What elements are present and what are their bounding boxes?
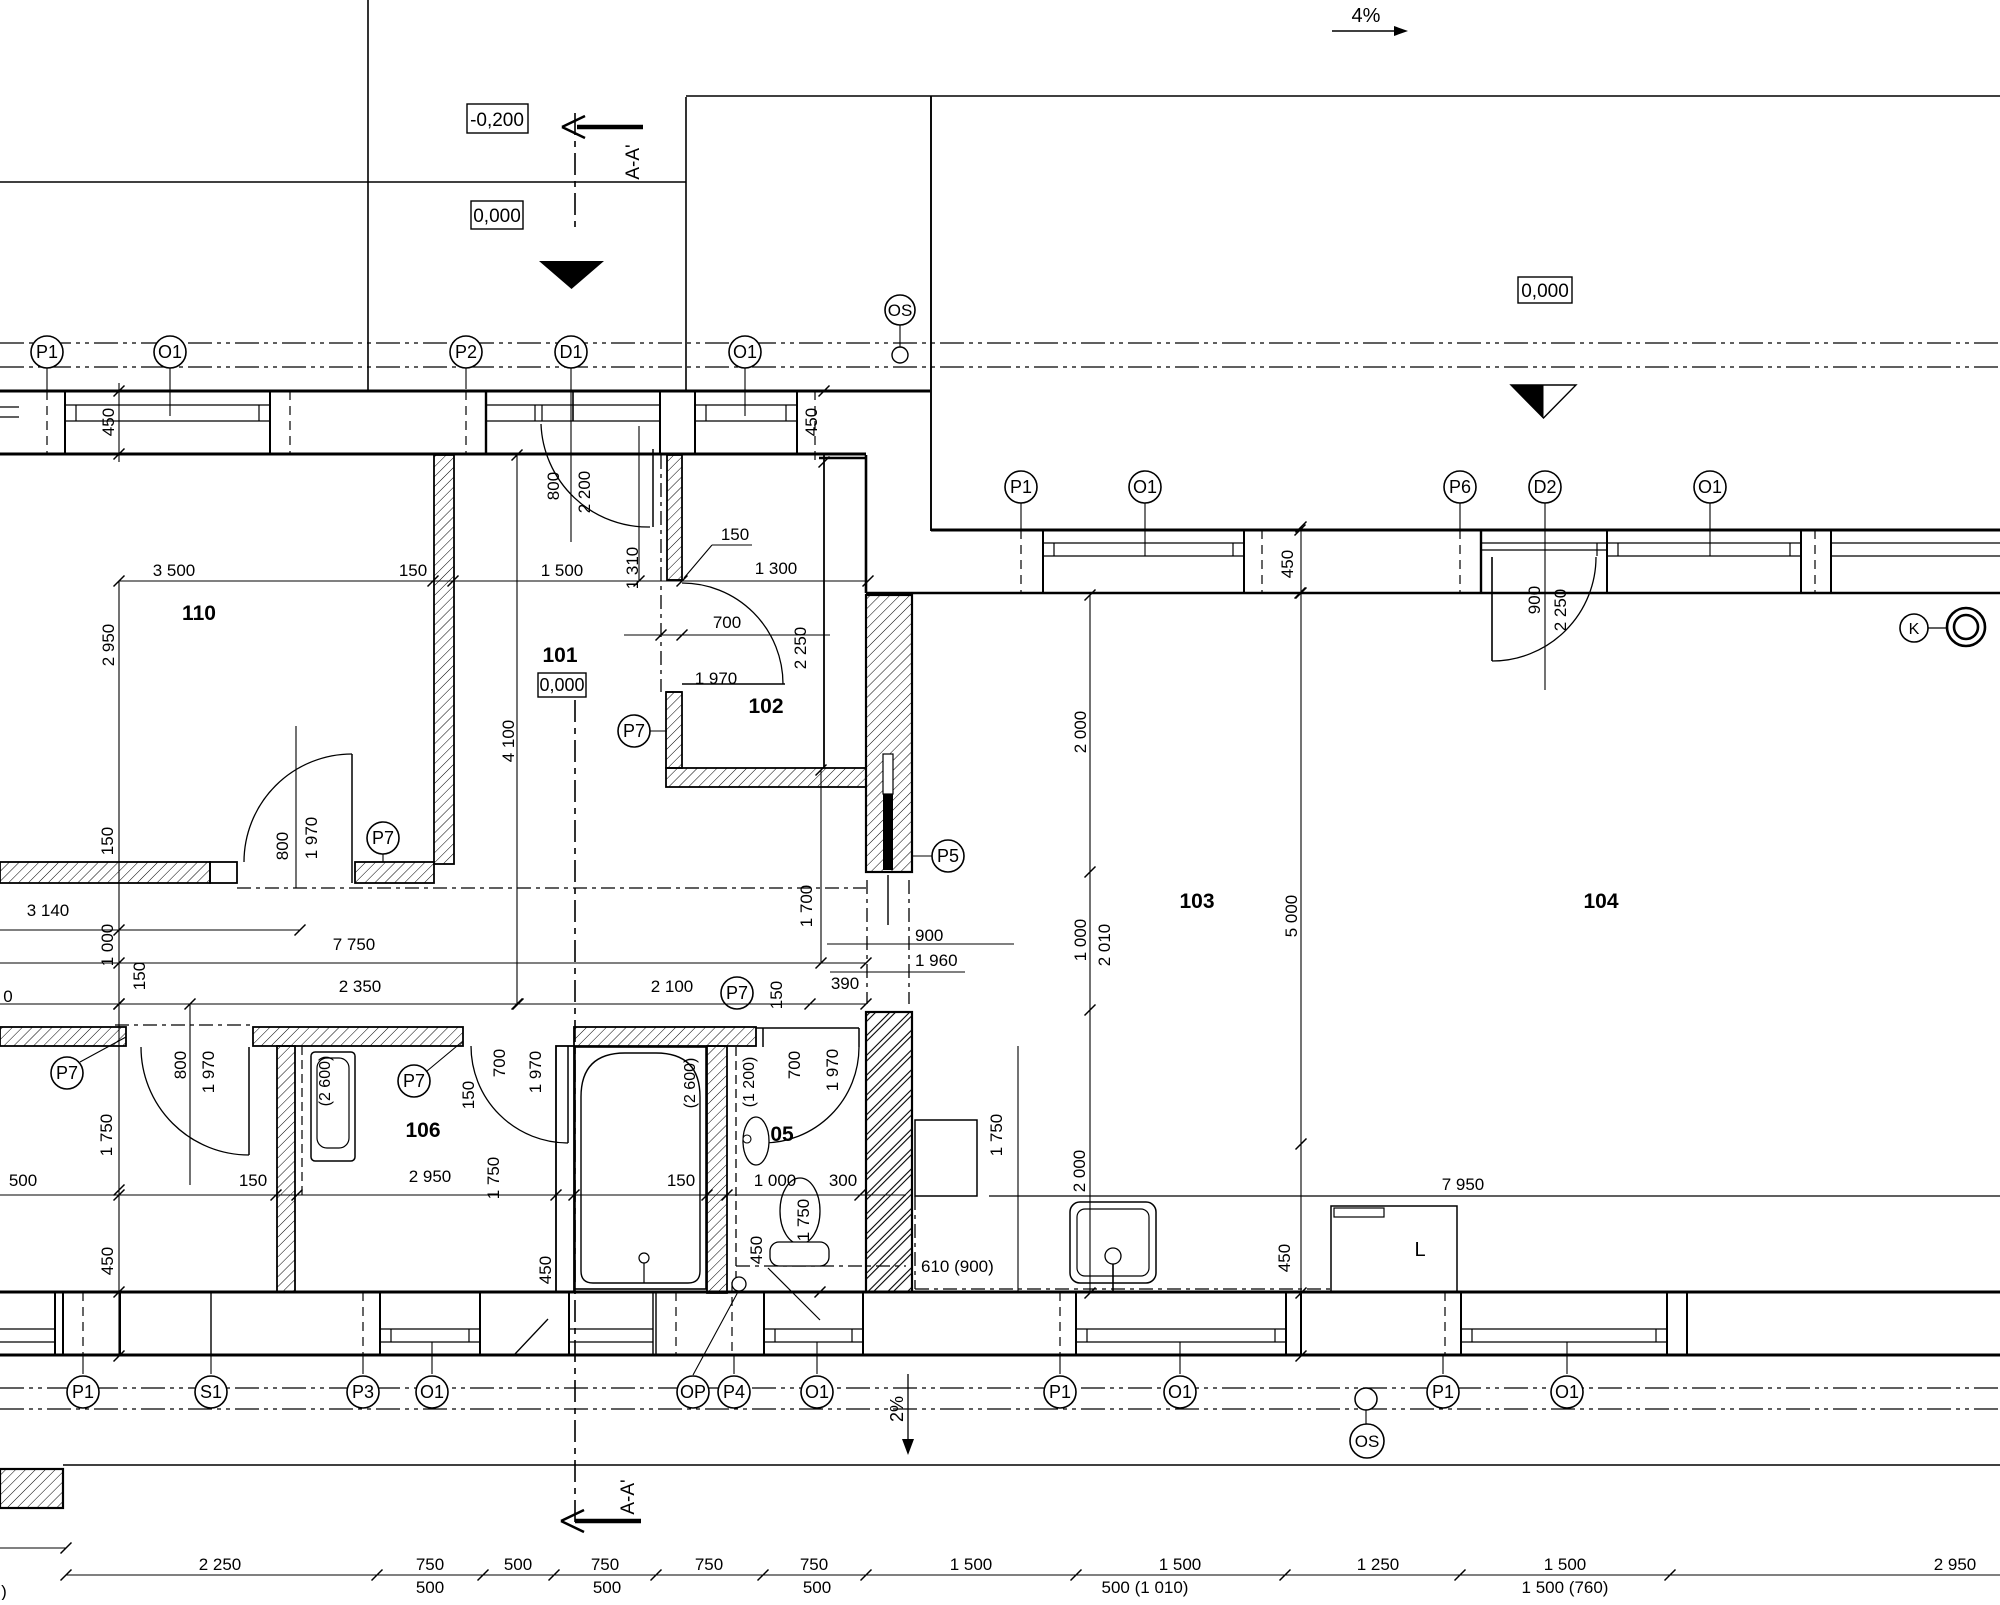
svg-text:L: L (1414, 1239, 1425, 1261)
wall axis dash right P1 (1020, 530, 1022, 593)
axis marker O1 bottom e (1179, 1342, 1181, 1374)
svg-text:1 500: 1 500 (1159, 1555, 1202, 1574)
svg-text:1 970: 1 970 (199, 1051, 218, 1094)
bottom window a (0, 1328, 55, 1330)
dim 450 wall thickness mid (819, 386, 830, 397)
door room 102 leaf (682, 683, 785, 685)
bottom wall top edge (0, 1291, 2000, 1294)
exterior wall top edge right (931, 529, 2000, 532)
axis marker O1 right wall (1144, 503, 1146, 556)
svg-text:0,000: 0,000 (539, 675, 584, 695)
bottom window f O1 (1461, 1328, 1667, 1330)
svg-text:3 500: 3 500 (153, 561, 196, 580)
svg-text:7 750: 7 750 (333, 935, 376, 954)
shaft wall lower part (866, 1012, 912, 1292)
axis marker S1 (210, 1356, 212, 1374)
svg-text:(1 200): (1 200) (741, 1057, 758, 1108)
svg-text:500: 500 (9, 1171, 37, 1190)
svg-text:P3: P3 (352, 1382, 374, 1402)
svg-text:P1: P1 (1049, 1382, 1071, 1402)
door D1 swing arc (541, 424, 650, 527)
dim 2950 vertical left (118, 581, 120, 1356)
dim 1700 vertical shaft (820, 770, 822, 963)
axis marker P1 bottom mid (1059, 1356, 1061, 1374)
axis marker P6 right wall (1459, 503, 1461, 530)
svg-text:O1: O1 (1133, 477, 1157, 497)
svg-text:0,000: 0,000 (1521, 281, 1569, 302)
exterior wall top edge left (0, 390, 930, 393)
svg-text:700: 700 (785, 1051, 804, 1079)
axis marker OP (693, 1290, 739, 1375)
svg-text:110: 110 (182, 602, 216, 625)
svg-text:150: 150 (98, 827, 117, 855)
wire: building outline vertical x=932 (930, 96, 932, 531)
svg-text:K: K (1909, 621, 1920, 638)
wall bath/105 (707, 1046, 727, 1293)
dim line y=1004 (0, 1003, 866, 1005)
svg-text:P7: P7 (403, 1071, 425, 1091)
svg-text:106: 106 (405, 1119, 440, 1142)
svg-text:OS: OS (888, 301, 913, 320)
bottom sill diagonal (515, 1319, 548, 1354)
svg-text:750: 750 (695, 1555, 723, 1574)
dim 1310 vertical (638, 426, 640, 581)
axis line top 1 (0, 342, 2000, 344)
svg-text:A-A': A-A' (623, 144, 644, 179)
svg-text:P5: P5 (937, 846, 959, 866)
svg-text:(2 600): (2 600) (317, 1056, 334, 1107)
dim line y=581 room widths (119, 580, 868, 582)
svg-text:P7: P7 (623, 721, 645, 741)
sill leader diagonal (768, 1268, 820, 1320)
svg-text:1 750: 1 750 (97, 1114, 116, 1157)
partition marker P7 hall mid (398, 1065, 430, 1097)
axis line top 2 (0, 366, 2000, 368)
svg-text:4%: 4% (1352, 5, 1381, 27)
svg-text:P7: P7 (372, 828, 394, 848)
svg-text:450: 450 (99, 408, 118, 436)
svg-text:(2 600): (2 600) (682, 1058, 699, 1109)
svg-text:450: 450 (98, 1247, 117, 1275)
dim chain bottom row1 (0, 1547, 66, 1549)
window frame cut at left edge (0, 406, 19, 408)
axis marker O1 bottom f (1566, 1342, 1568, 1374)
svg-text:500: 500 (416, 1578, 444, 1597)
wall 106/bath (556, 1046, 574, 1292)
window O1 frame e far right (1831, 542, 2000, 544)
dim 450 right wall (1295, 525, 1306, 536)
wire: building outline vertical x=368 (367, 0, 369, 391)
axis marker P3 (362, 1356, 364, 1374)
svg-text:OP: OP (680, 1382, 706, 1402)
shaft open niche dashed (866, 880, 868, 1004)
svg-text:A-A': A-A' (618, 1479, 639, 1514)
svg-text:O1: O1 (158, 342, 182, 362)
wall axis dash P6 (1459, 530, 1461, 593)
wire: building outline horizontal y=97 (686, 95, 2000, 97)
level box 0,000 room 101 (538, 673, 586, 697)
window O1 frame c (1043, 542, 1244, 544)
corner step edge right of left wall (819, 457, 866, 460)
door 106 left leaf (248, 1047, 250, 1155)
wire: building outline horizontal y=182 (0, 181, 686, 183)
axis marker O1 top-left (169, 368, 171, 416)
corner hatched block bottom-left (0, 1469, 63, 1508)
svg-text:3 140: 3 140 (27, 901, 70, 920)
wall corridor 110/106 left (0, 862, 210, 883)
svg-text:750: 750 (416, 1555, 444, 1574)
threshold dashdot hall door (115, 1024, 253, 1026)
dim vertical x=1090 room 103 (1089, 595, 1091, 1293)
wall between 101 and 102 upper (667, 455, 682, 580)
dim 450 wall thickness left (118, 383, 120, 462)
axis marker P1 top-left (46, 368, 48, 390)
partition marker P5 shaft (932, 840, 964, 872)
wall axis dash x=1262 (1261, 530, 1263, 593)
partition marker P7 room 102 (618, 715, 650, 747)
svg-text:1 970: 1 970 (695, 669, 738, 688)
svg-text:P4: P4 (723, 1382, 745, 1402)
svg-text:150: 150 (721, 525, 749, 544)
svg-text:450: 450 (747, 1236, 766, 1264)
bottom pier P1 right (1444, 1292, 1446, 1355)
svg-text:500 (1 010): 500 (1 010) (1102, 1578, 1189, 1597)
window beside D1 (573, 404, 660, 406)
axis marker D1 top (570, 368, 572, 542)
wall axis dash x=1815 (1814, 530, 1816, 593)
window O1 frame b (695, 404, 797, 406)
svg-text:P7: P7 (726, 983, 748, 1003)
svg-text:150: 150 (399, 561, 427, 580)
axis marker O1 top-mid (744, 368, 746, 416)
svg-text:101: 101 (542, 644, 577, 667)
hall lower wall seg1 (0, 1027, 126, 1046)
dim 1750 bath right (1017, 1046, 1019, 1293)
bottom pier OP P4 (675, 1292, 677, 1355)
svg-text:450: 450 (1278, 550, 1297, 578)
svg-text:2 010: 2 010 (1095, 924, 1114, 967)
wall niche axis at 661 (660, 455, 662, 692)
wall room 102 bottom (666, 768, 866, 787)
svg-text:O1: O1 (1698, 477, 1722, 497)
door room 110 leaf (351, 754, 353, 883)
room 102 right wall edge (823, 455, 825, 768)
room 105 bottom dashdot (736, 1265, 906, 1267)
level triangle right (half filled) (1511, 385, 1576, 418)
svg-text:150: 150 (667, 1171, 695, 1190)
svg-text:05: 05 (770, 1123, 794, 1146)
axis marker P1 bottom-left (82, 1356, 84, 1374)
svg-text:P1: P1 (72, 1382, 94, 1402)
bottom wall bottom edge (0, 1354, 2000, 1357)
partition marker P7 hall left (51, 1057, 83, 1089)
bottom window b O1 (380, 1328, 480, 1330)
partition marker P7 top dims (721, 977, 753, 1009)
axis marker OS top (885, 295, 915, 325)
section marker A-A' top (562, 116, 585, 138)
svg-text:0,000: 0,000 (473, 206, 521, 227)
section marker A-A' bottom (561, 1510, 584, 1532)
exterior wall bottom edge left (0, 453, 866, 456)
level label 0,000 right (1518, 277, 1572, 303)
bottom axis line 1 (0, 1387, 2000, 1389)
dim line y=1195 lower rooms (0, 1194, 906, 1196)
door 106 right leaf (567, 1046, 569, 1143)
dim 900 shaft (827, 943, 1014, 945)
svg-text:1 500: 1 500 (950, 1555, 993, 1574)
svg-text:-0,200: -0,200 (470, 110, 524, 131)
svg-text:2 950: 2 950 (99, 624, 118, 667)
svg-text:P1: P1 (1010, 477, 1032, 497)
svg-text:800: 800 (171, 1051, 190, 1079)
svg-text:800: 800 (273, 832, 292, 860)
svg-text:700: 700 (713, 613, 741, 632)
svg-text:1 000: 1 000 (1071, 919, 1090, 962)
svg-text:P1: P1 (1432, 1382, 1454, 1402)
bottom pier under shaft (1059, 1292, 1061, 1355)
dim 7750 (0, 962, 866, 964)
hall lower wall seg2 (253, 1027, 463, 1046)
level label 0,000 left (471, 201, 523, 229)
door D2 threshold (1481, 542, 1607, 544)
dim 4100 vertical room 101 (516, 455, 518, 1004)
svg-text:7 950: 7 950 (1442, 1175, 1485, 1194)
shaft door P5 white slot (883, 754, 893, 794)
svg-text:1 500 (760): 1 500 (760) (1522, 1578, 1609, 1597)
kitchen tall cabinet (915, 1120, 977, 1196)
svg-text:1 500: 1 500 (541, 561, 584, 580)
axis marker D2 right wall (1544, 503, 1546, 690)
window O1 frame d (1607, 542, 1801, 544)
axis marker O1 right wall 2 (1709, 503, 1711, 556)
svg-text:P7: P7 (56, 1063, 78, 1083)
door room 102 swing (682, 583, 783, 684)
svg-text:2 000: 2 000 (1070, 1150, 1089, 1193)
level triangle left (filled) (539, 261, 604, 289)
svg-text:1 960: 1 960 (915, 951, 958, 970)
svg-text:2 250: 2 250 (791, 627, 810, 670)
chimney symbol K (1900, 614, 1928, 642)
axis marker O1 bottom b (431, 1342, 433, 1374)
door 106 left swing (141, 1047, 249, 1155)
dim 700 door 102 (624, 634, 830, 636)
svg-text:O1: O1 (805, 1382, 829, 1402)
wall entry/106 vertical (277, 1046, 295, 1292)
svg-text:500: 500 (504, 1555, 532, 1574)
slope 2% arrow (907, 1374, 909, 1443)
svg-text:500: 500 (593, 1578, 621, 1597)
svg-text:150: 150 (239, 1171, 267, 1190)
bottom wall S1 segment (210, 1292, 212, 1355)
shaft door P5 black panel (883, 794, 893, 870)
svg-text:5 000: 5 000 (1282, 895, 1301, 938)
svg-text:700: 700 (490, 1049, 509, 1077)
svg-text:1 700: 1 700 (797, 885, 816, 928)
wall axis dash x=815 (814, 391, 816, 462)
door 105 swing (763, 1047, 859, 1143)
svg-text:1 310: 1 310 (623, 547, 642, 590)
axis marker P1 bottom right (1442, 1356, 1444, 1374)
door D1 leaf (652, 449, 654, 527)
svg-text:2 250: 2 250 (199, 1555, 242, 1574)
svg-text:O1: O1 (420, 1382, 444, 1402)
svg-text:S1: S1 (200, 1382, 222, 1402)
door D2 leaf and swing (1491, 557, 1493, 661)
svg-text:2 350: 2 350 (339, 977, 382, 996)
svg-text:O1: O1 (733, 342, 757, 362)
bottom window e O1 (1076, 1328, 1286, 1330)
svg-text:104: 104 (1583, 890, 1618, 913)
svg-text:D2: D2 (1533, 477, 1556, 497)
svg-text:1 750: 1 750 (484, 1157, 503, 1200)
svg-text:2%: 2% (887, 1396, 907, 1422)
dim vertical x=1301 rooms right (1300, 527, 1302, 1356)
svg-text:450: 450 (802, 408, 821, 436)
wall between 110 and 101 (434, 455, 454, 864)
svg-text:450: 450 (1275, 1244, 1294, 1272)
svg-text:2 000: 2 000 (1071, 711, 1090, 754)
shaft wall upper part (866, 595, 912, 872)
niche dashed line room 106 (301, 1046, 303, 1195)
wire: building outline vertical x=686 (685, 97, 687, 391)
dim labels door 110 (295, 726, 297, 888)
bottom axis line 2 (0, 1408, 2000, 1410)
threshold dashdot corridor (237, 887, 866, 889)
bathtub (575, 1047, 706, 1289)
bottom pier P1 (119, 1292, 121, 1355)
level label -0,200 (467, 104, 528, 133)
svg-text:): ) (1, 1582, 7, 1600)
svg-text:OS: OS (1355, 1432, 1380, 1451)
bottom window d O1 (764, 1328, 863, 1330)
kitchen counter dashdot outline (914, 1196, 916, 1289)
svg-text:150: 150 (130, 962, 149, 990)
svg-text:1 750: 1 750 (987, 1114, 1006, 1157)
wall axis dash P2 (465, 391, 467, 455)
svg-text:0: 0 (3, 987, 12, 1006)
wall axis dash P1 (46, 391, 48, 455)
axis marker O1 bottom d (816, 1342, 818, 1374)
wall axis dash x=290 (289, 391, 291, 455)
svg-text:500: 500 (803, 1578, 831, 1597)
svg-text:1 750: 1 750 (794, 1199, 813, 1242)
svg-text:1 250: 1 250 (1357, 1555, 1400, 1574)
svg-text:900: 900 (915, 926, 943, 945)
svg-text:900: 900 (1525, 586, 1544, 614)
svg-text:300: 300 (829, 1171, 857, 1190)
svg-text:150: 150 (459, 1081, 478, 1109)
svg-text:150: 150 (767, 981, 786, 1009)
svg-text:2 250: 2 250 (1551, 589, 1570, 632)
svg-text:750: 750 (591, 1555, 619, 1574)
kitchen counter front edge line (989, 1195, 2000, 1197)
washbasin room 105 (743, 1117, 769, 1165)
svg-text:103: 103 (1179, 890, 1214, 913)
svg-text:O1: O1 (1168, 1382, 1192, 1402)
bottom window c bath (569, 1328, 653, 1330)
room 105 dashed niche line (735, 1047, 737, 1293)
axis marker P2 top (465, 368, 467, 389)
dim 1960 shaft (830, 971, 965, 973)
svg-text:P2: P2 (455, 342, 477, 362)
door room 110 swing (244, 754, 352, 862)
door 106 right swing (471, 1046, 568, 1143)
toilet room 105 (780, 1178, 820, 1244)
svg-text:1 300: 1 300 (755, 559, 798, 578)
svg-text:2 950: 2 950 (1934, 1555, 1977, 1574)
svg-text:P1: P1 (36, 342, 58, 362)
axis marker P1 right wall (1020, 503, 1022, 530)
svg-text:O1: O1 (1555, 1382, 1579, 1402)
kitchen sink (1070, 1202, 1156, 1283)
svg-text:450: 450 (536, 1256, 555, 1284)
axis marker OS bottom (1355, 1388, 1377, 1410)
svg-text:2 100: 2 100 (651, 977, 694, 996)
hall lower wall seg3 (574, 1027, 756, 1046)
svg-text:P6: P6 (1449, 477, 1471, 497)
shaft P5 axis stub (887, 875, 889, 925)
svg-text:1 970: 1 970 (302, 817, 321, 860)
svg-text:750: 750 (800, 1555, 828, 1574)
svg-text:1 970: 1 970 (526, 1051, 545, 1094)
window O1 frame a (65, 404, 270, 406)
dim labels door 106 left (189, 1004, 191, 1185)
door D1 threshold (486, 404, 573, 406)
svg-text:800: 800 (544, 472, 563, 500)
svg-text:102: 102 (748, 695, 783, 718)
terrain line bottom (63, 1464, 2000, 1466)
svg-text:1 500: 1 500 (1544, 1555, 1587, 1574)
wall corridor 110/106 right (355, 862, 434, 883)
svg-text:1 970: 1 970 (823, 1049, 842, 1092)
section line A-A' (574, 113, 576, 232)
svg-text:D1: D1 (559, 342, 582, 362)
svg-text:390: 390 (831, 974, 859, 993)
svg-text:610 (900): 610 (900) (921, 1257, 994, 1276)
svg-text:2 950: 2 950 (409, 1167, 452, 1186)
washbasin room 106 (311, 1052, 355, 1161)
svg-text:4 100: 4 100 (499, 720, 518, 763)
svg-text:1 000: 1 000 (754, 1171, 797, 1190)
partition marker P7 room 110 (367, 822, 399, 854)
dim 3140 (0, 929, 300, 931)
fridge L box (1331, 1206, 1457, 1292)
axis marker P4 (733, 1356, 735, 1374)
wall between 101 and 102 lower (666, 692, 682, 768)
